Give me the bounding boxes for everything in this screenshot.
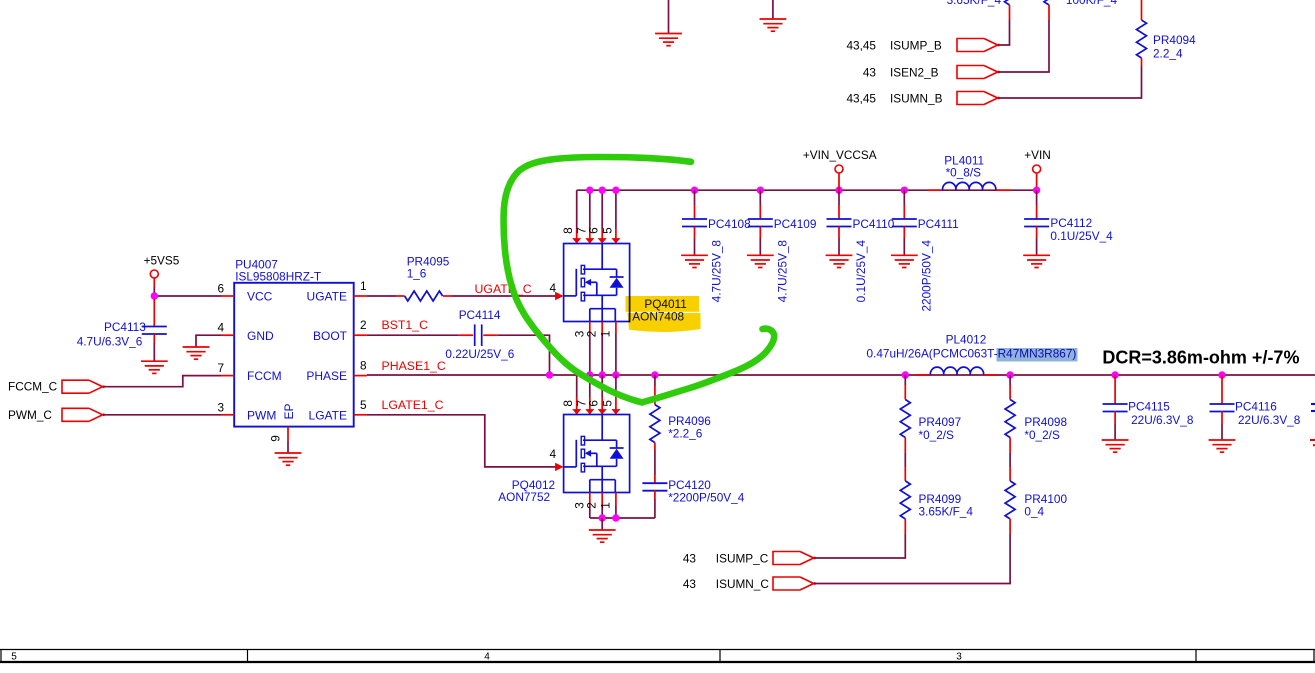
svg-text:VCC: VCC (247, 290, 273, 304)
svg-text:PL4012: PL4012 (946, 333, 987, 347)
svg-text:6: 6 (587, 227, 601, 234)
svg-text:*0_2/S: *0_2/S (919, 428, 955, 442)
svg-text:UGATE_C: UGATE_C (475, 282, 532, 296)
svg-text:EP: EP (282, 403, 296, 419)
svg-text:PWM: PWM (247, 408, 276, 422)
svg-text:PC4109: PC4109 (774, 217, 817, 231)
svg-text:4.7U/25V_8: 4.7U/25V_8 (775, 240, 789, 303)
svg-text:+VIN_VCCSA: +VIN_VCCSA (803, 148, 877, 162)
svg-text:+VIN: +VIN (1024, 148, 1051, 162)
svg-text:PC4110: PC4110 (853, 217, 895, 231)
svg-text:1: 1 (598, 331, 612, 338)
svg-text:PR4097: PR4097 (919, 415, 962, 429)
svg-text:100K/F_4: 100K/F_4 (1066, 0, 1118, 7)
svg-text:BST1_C: BST1_C (382, 318, 429, 332)
svg-text:GND: GND (247, 329, 274, 343)
svg-text:PC4112: PC4112 (1050, 216, 1092, 230)
svg-text:8: 8 (561, 400, 575, 407)
svg-text:ISL95808HRZ-T: ISL95808HRZ-T (235, 270, 321, 284)
svg-text:ISUMN_C: ISUMN_C (716, 577, 770, 591)
svg-text:9: 9 (269, 435, 283, 442)
svg-text:5: 5 (11, 652, 17, 663)
svg-text:7: 7 (217, 361, 224, 375)
svg-text:6: 6 (217, 282, 224, 296)
svg-text:4.7U/6.3V_6: 4.7U/6.3V_6 (77, 335, 143, 349)
svg-text:*0_8/S: *0_8/S (946, 166, 982, 180)
svg-text:PHASE1_C: PHASE1_C (382, 359, 446, 373)
svg-text:4: 4 (217, 321, 224, 335)
svg-text:ISUMP_B: ISUMP_B (890, 39, 942, 53)
svg-text:4: 4 (549, 447, 556, 461)
svg-text:+5VS5: +5VS5 (144, 254, 180, 268)
svg-text:PC4108: PC4108 (708, 217, 751, 231)
svg-text:43: 43 (683, 577, 697, 591)
svg-text:ISUMN_B: ISUMN_B (890, 92, 943, 106)
svg-text:UGATE: UGATE (307, 290, 347, 304)
svg-text:DCR=3.86m-ohm +/-7%: DCR=3.86m-ohm +/-7% (1102, 348, 1299, 368)
svg-text:43,45: 43,45 (846, 39, 876, 53)
svg-text:4.7U/25V_8: 4.7U/25V_8 (710, 240, 724, 303)
svg-text:22U/6.3V_8: 22U/6.3V_8 (1131, 413, 1194, 427)
svg-text:2: 2 (585, 331, 599, 338)
svg-text:*2.2_6: *2.2_6 (668, 427, 703, 441)
svg-text:ISUMP_C: ISUMP_C (716, 552, 769, 566)
svg-text:2.2_4: 2.2_4 (1153, 47, 1183, 61)
svg-text:5: 5 (600, 227, 614, 234)
svg-text:0.22U/25V_6: 0.22U/25V_6 (445, 347, 514, 361)
svg-text:5: 5 (360, 398, 367, 412)
svg-text:LGATE: LGATE (309, 408, 347, 422)
svg-text:PC4114: PC4114 (459, 308, 501, 322)
svg-text:2200P/50V_4: 2200P/50V_4 (919, 240, 933, 312)
svg-text:0.1U/25V_4: 0.1U/25V_4 (1050, 229, 1113, 243)
svg-text:1: 1 (598, 502, 612, 509)
svg-text:1: 1 (360, 279, 367, 293)
svg-text:2: 2 (585, 502, 599, 509)
svg-text:3.65K/F_4: 3.65K/F_4 (947, 0, 1002, 7)
svg-text:LGATE1_C: LGATE1_C (382, 398, 444, 412)
svg-text:PWM_C: PWM_C (8, 408, 52, 422)
svg-text:22U/6.3V_8: 22U/6.3V_8 (1238, 413, 1301, 427)
svg-text:8: 8 (561, 227, 575, 234)
svg-text:0.1U/25V_4: 0.1U/25V_4 (854, 240, 868, 303)
svg-text:8: 8 (360, 359, 367, 373)
svg-text:*2200P/50V_4: *2200P/50V_4 (668, 491, 745, 505)
svg-text:6: 6 (587, 400, 601, 407)
svg-text:43,45: 43,45 (846, 92, 876, 106)
svg-text:PR4098: PR4098 (1024, 415, 1067, 429)
svg-text:4: 4 (549, 281, 556, 295)
svg-text:PC4115: PC4115 (1128, 400, 1170, 414)
svg-text:43: 43 (863, 66, 877, 80)
svg-text:AON7752: AON7752 (498, 490, 550, 504)
svg-text:PC4116: PC4116 (1235, 400, 1277, 414)
svg-text:43: 43 (683, 552, 697, 566)
svg-text:3: 3 (956, 652, 962, 663)
svg-text:1_6: 1_6 (407, 267, 427, 281)
svg-text:PR4094: PR4094 (1153, 33, 1196, 47)
svg-text:BOOT: BOOT (313, 329, 348, 343)
svg-text:ISEN2_B: ISEN2_B (890, 66, 939, 80)
svg-text:*0_2/S: *0_2/S (1024, 428, 1060, 442)
svg-text:0_4: 0_4 (1024, 505, 1044, 519)
svg-text:FCCM_C: FCCM_C (8, 380, 58, 394)
svg-text:PC4113: PC4113 (104, 320, 146, 334)
svg-text:PHASE: PHASE (306, 369, 347, 383)
svg-text:3.65K/F_4: 3.65K/F_4 (919, 505, 974, 519)
svg-text:5: 5 (600, 400, 614, 407)
svg-text:4: 4 (484, 652, 490, 663)
svg-text:PC4111: PC4111 (918, 217, 959, 231)
svg-text:2: 2 (360, 318, 367, 332)
svg-text:3: 3 (217, 400, 224, 414)
svg-text:FCCM: FCCM (247, 369, 282, 383)
